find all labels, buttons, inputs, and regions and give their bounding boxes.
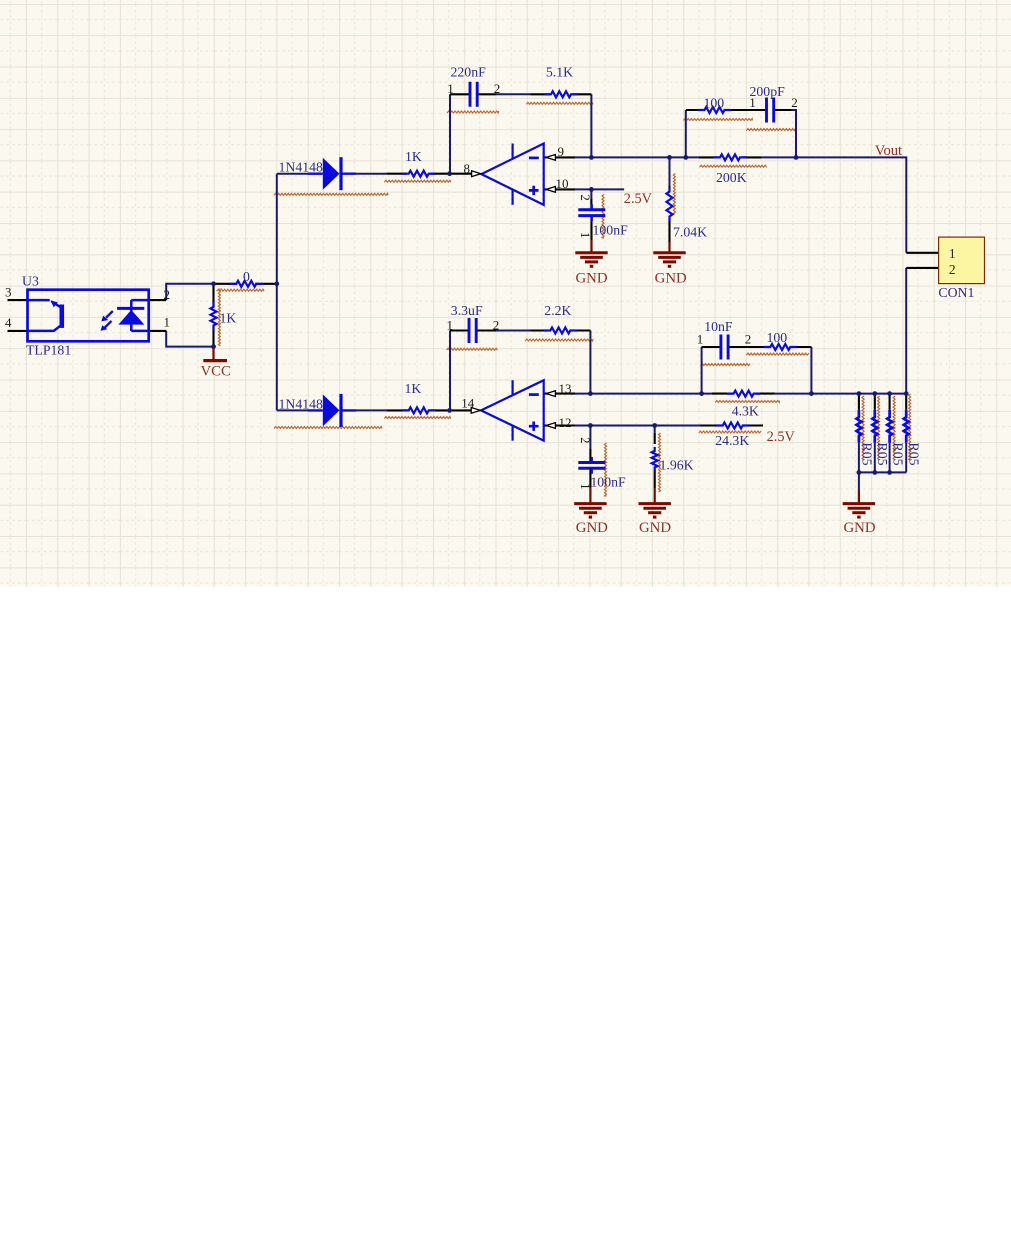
svg-text:2: 2: [164, 287, 171, 302]
svg-text:24.3K: 24.3K: [715, 433, 749, 448]
svg-text:100nF: 100nF: [593, 222, 629, 237]
svg-text:1N4148: 1N4148: [279, 160, 324, 175]
svg-text:1: 1: [164, 314, 171, 329]
svg-text:2: 2: [494, 81, 501, 96]
svg-text:200K: 200K: [716, 170, 747, 185]
svg-text:1: 1: [447, 317, 454, 332]
svg-text:GND: GND: [575, 270, 607, 286]
svg-text:2: 2: [578, 437, 592, 443]
svg-text:TLP181: TLP181: [26, 343, 71, 358]
svg-text:GND: GND: [576, 520, 608, 536]
svg-text:13: 13: [559, 381, 572, 396]
svg-text:1: 1: [447, 81, 454, 96]
svg-text:100nF: 100nF: [590, 475, 626, 490]
svg-text:2.5V: 2.5V: [624, 191, 653, 207]
svg-text:1K: 1K: [405, 149, 422, 164]
svg-text:10: 10: [556, 176, 569, 191]
svg-text:12: 12: [559, 415, 572, 430]
svg-text:1.96K: 1.96K: [660, 458, 694, 473]
svg-text:2: 2: [949, 262, 956, 277]
svg-text:3.3uF: 3.3uF: [451, 303, 483, 318]
svg-text:2.5V: 2.5V: [767, 429, 796, 445]
svg-text:2.2K: 2.2K: [544, 303, 571, 318]
svg-text:GND: GND: [655, 270, 687, 286]
svg-text:GND: GND: [639, 520, 671, 536]
svg-text:8: 8: [464, 161, 471, 176]
svg-text:VCC: VCC: [201, 364, 232, 380]
svg-text:3: 3: [5, 284, 12, 299]
svg-text:U3: U3: [22, 273, 39, 288]
svg-text:1K: 1K: [220, 310, 237, 325]
svg-text:4: 4: [5, 315, 12, 330]
svg-text:5.1K: 5.1K: [546, 64, 573, 79]
svg-text:1K: 1K: [405, 381, 422, 396]
svg-text:1: 1: [749, 95, 756, 110]
svg-text:9: 9: [558, 144, 565, 159]
svg-text:R05: R05: [907, 443, 922, 466]
svg-text:CON1: CON1: [938, 285, 974, 300]
svg-text:Vout: Vout: [875, 143, 902, 159]
svg-text:100: 100: [767, 330, 788, 345]
svg-text:2: 2: [578, 195, 592, 201]
svg-text:4.3K: 4.3K: [732, 404, 759, 419]
svg-text:2: 2: [493, 317, 500, 332]
svg-text:14: 14: [461, 395, 475, 410]
svg-text:1: 1: [949, 246, 956, 261]
svg-text:10nF: 10nF: [704, 319, 733, 334]
svg-text:100: 100: [704, 95, 725, 110]
svg-text:7.04K: 7.04K: [673, 224, 707, 239]
svg-text:1: 1: [697, 331, 704, 346]
svg-text:R05: R05: [875, 443, 890, 466]
svg-text:2: 2: [791, 95, 798, 110]
svg-text:0: 0: [243, 269, 250, 284]
svg-text:220nF: 220nF: [451, 64, 487, 79]
svg-text:1: 1: [578, 232, 592, 238]
svg-text:2: 2: [745, 331, 752, 346]
svg-text:GND: GND: [843, 520, 875, 536]
svg-text:R05: R05: [890, 443, 905, 466]
svg-text:R05: R05: [859, 443, 874, 466]
svg-text:1N4148: 1N4148: [279, 397, 324, 412]
svg-text:1: 1: [578, 483, 592, 489]
